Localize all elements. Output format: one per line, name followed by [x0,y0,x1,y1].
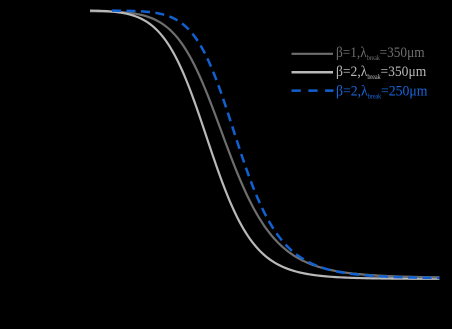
legend label 3: beta=2, lambda_break=250um [336,83,427,101]
svg-text:β=2,λbreak=350μm: β=2,λbreak=350μm [336,63,426,81]
curve U2: beta=2, lambda_break=350um (light gray solid) [90,11,440,279]
curve U3: beta=2, lambda_break=250um (blue dashed) [112,11,440,278]
legend sample line 3 (blue dashed) [292,89,334,92]
legend sample line 1 (dark gray) [292,53,334,55]
legend label 1: beta=1, lambda_break=350um [336,45,425,63]
legend sample line 2 (light gray) [292,71,334,74]
legend label 2: beta=2, lambda_break=350um [336,63,426,81]
svg-text:β=2,λbreak=250μm: β=2,λbreak=250μm [336,83,427,101]
svg-text:β=1,λbreak=350μm: β=1,λbreak=350μm [336,45,425,63]
curve U1 tail overdraw (dark gray over light gray) [350,273,440,277]
curve U1: beta=1, lambda_break=350um (dark gray solid) [90,11,440,277]
